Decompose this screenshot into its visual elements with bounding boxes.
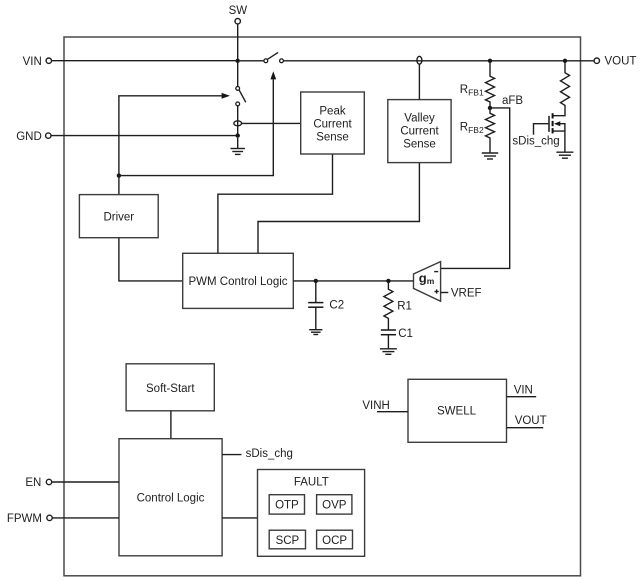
Soft-Start block [126,364,214,411]
svg-text:VIN: VIN [23,56,42,68]
SWELL block [408,379,507,442]
svg-text:OVP: OVP [322,500,347,512]
resistor R1 [384,281,412,330]
wire FPWM to Control Logic [52,517,119,519]
svg-text:C2: C2 [329,299,344,311]
svg-text:Sense: Sense [316,132,349,144]
svg-text:PWM Control Logic: PWM Control Logic [188,276,287,288]
label VREF [441,287,482,299]
op-amp gm error amplifier [414,262,441,302]
wire gm output to PWM Control Logic [293,280,413,282]
wire Control Logic to FAULT [222,517,257,519]
ground under RFB2 [482,153,498,159]
svg-text:aFB: aFB [502,95,523,107]
resistor RFB1 [460,63,495,108]
wire Soft-Start to Control Logic [170,411,172,439]
junction SW node [236,59,240,63]
svg-text:OTP: OTP [275,500,299,512]
svg-text:Peak: Peak [319,105,345,117]
switch low-side [236,63,246,106]
resistor RFB2 [460,108,495,153]
PWM Control Logic block [183,253,294,308]
wire driver control to low-side switch with arrow [119,93,230,195]
pin VIN of SWELL [507,384,537,396]
OCP block [317,530,353,549]
svg-text:GND: GND [16,131,42,143]
wire VOUT rail [283,60,594,62]
svg-text:SWELL: SWELL [437,405,477,417]
wire valley sense to Valley Current Sense [418,64,420,100]
svg-text:sDis_chg: sDis_chg [246,448,293,460]
wire VIN rail [52,60,238,62]
pin VOUT of SWELL [507,415,547,428]
junction driver control branch [117,173,121,177]
svg-text:VREF: VREF [451,287,482,299]
svg-text:Valley: Valley [404,112,435,124]
wire SW pin to input rail [237,24,239,61]
svg-text:Soft-Start: Soft-Start [146,383,195,395]
svg-text:SCP: SCP [276,535,300,547]
svg-text:VOUT: VOUT [515,415,547,427]
svg-text:VOUT: VOUT [605,56,637,68]
OTP block [269,495,304,514]
svg-text:C1: C1 [398,328,413,340]
svg-text:Current: Current [313,118,352,130]
svg-text:Driver: Driver [103,211,134,223]
junction C2 node [314,279,318,283]
capacitor C1 [381,328,413,349]
OVP block [317,495,352,514]
wire driver control to high-side switch with arrow [119,71,276,175]
wire EN to Control Logic [52,481,119,483]
Control Logic block [119,439,222,556]
switch high-side [240,52,284,62]
pin VIN [23,56,52,68]
svg-text:sDis_chg: sDis_chg [512,135,559,147]
svg-text:EN: EN [25,477,41,489]
Valley Current Sense block [388,100,451,163]
svg-text:FPWM: FPWM [7,513,42,525]
Peak Current Sense block [301,92,365,154]
junction discharge resistor top [563,59,567,63]
wire GND rail [51,135,238,137]
svg-text:FAULT: FAULT [294,476,329,488]
SCP block [269,530,305,549]
svg-text:Control Logic: Control Logic [137,492,205,504]
capacitor C2 [308,281,344,330]
junction R1 node [386,279,390,283]
pin VOUT [594,56,636,68]
ground under MOSFET [556,152,573,158]
wire PWM to Valley Current Sense [258,163,419,254]
svg-text:Current: Current [400,126,439,138]
resistor discharge [561,63,570,106]
pin EN [25,477,51,489]
junction GND node [236,133,240,137]
svg-text:R1: R1 [397,300,412,312]
svg-text:Sense: Sense [403,139,436,151]
pin VINH [362,400,408,412]
wire Driver to PWM Control Logic [119,238,183,281]
junction RFB1 top [488,59,492,63]
wire sDis_chg stub from Control Logic [222,448,293,460]
svg-text:OCP: OCP [322,535,347,547]
pin SW [229,5,248,24]
ground under C1 [380,349,397,355]
ground symbol power ground [230,138,245,155]
ground under C2 [309,330,322,335]
pin FPWM [7,513,52,525]
svg-text:VINH: VINH [362,400,389,412]
current sense loop peak [234,121,242,126]
transistor sDis_chg MOSFET [512,105,565,152]
wire low-side switch to GND node [237,106,239,136]
svg-text:VIN: VIN [514,384,533,396]
pin GND [16,131,51,143]
current sense loop valley [417,56,422,64]
svg-text:SW: SW [229,5,248,17]
IC boundary box [64,37,581,576]
FAULT block [258,470,365,557]
wire aFB to gm amp inverting input [441,108,510,269]
wire peak sense to Peak Current Sense [242,122,301,124]
node aFB [488,95,524,110]
wire PWM to Peak Current Sense [218,154,333,253]
Driver block [79,195,158,238]
